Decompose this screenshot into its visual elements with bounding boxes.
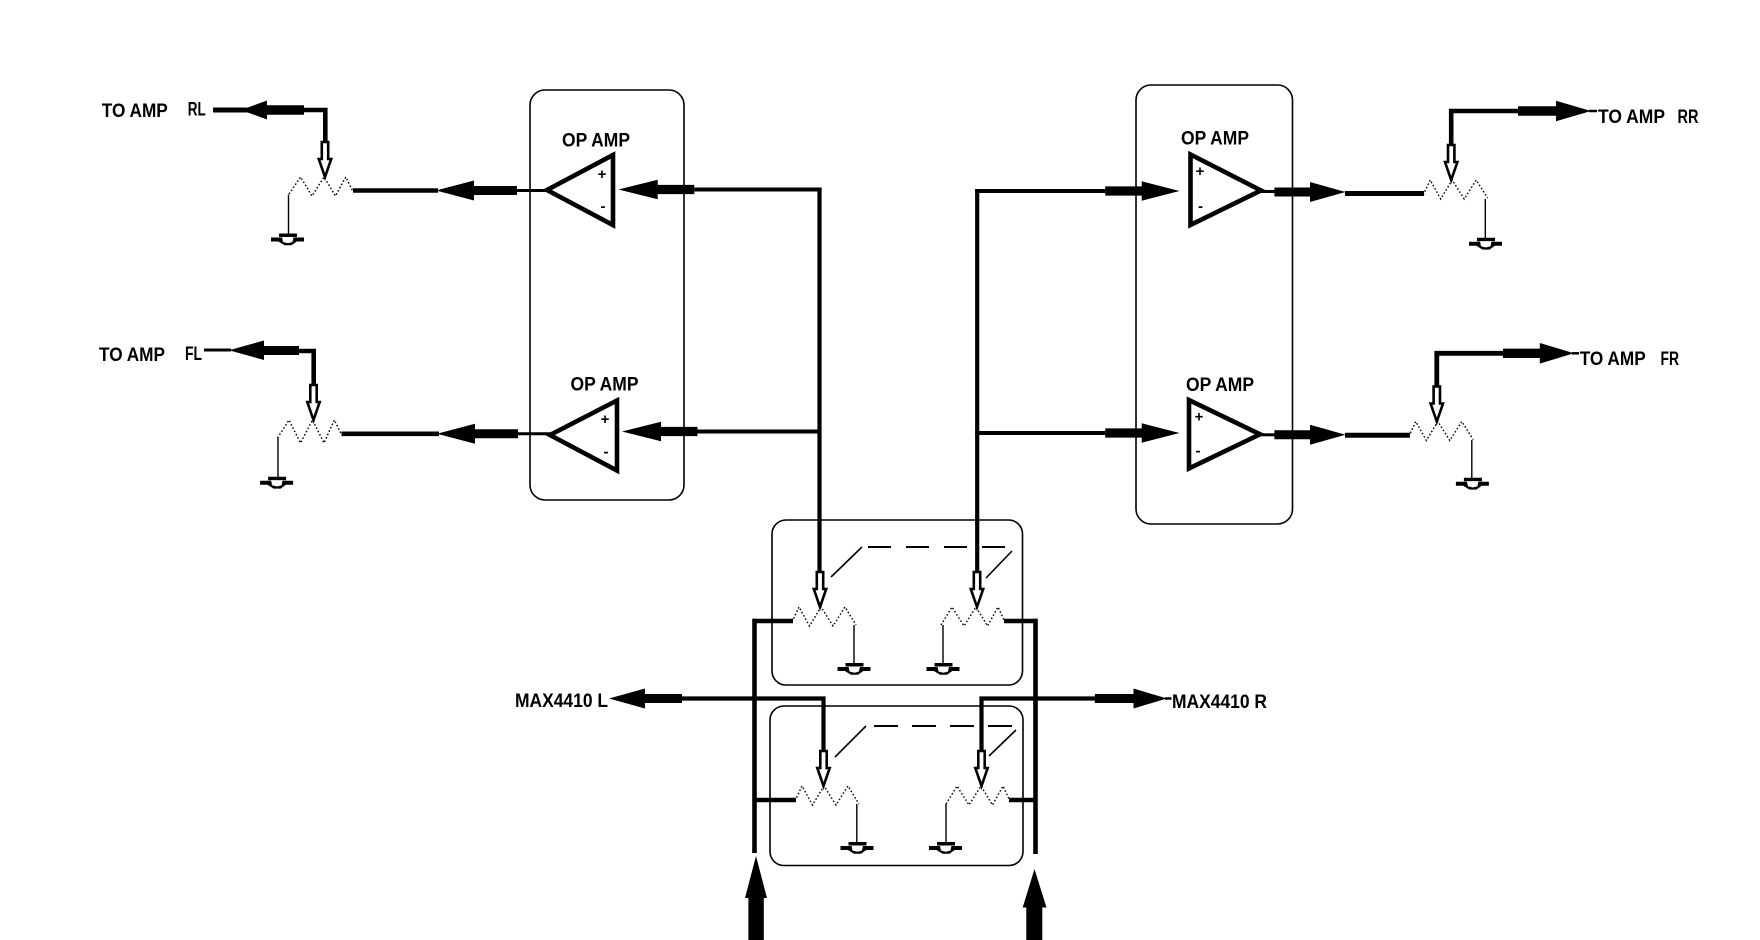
gang diagonal upper right xyxy=(986,551,1012,578)
wire op-amp U2B output to R4 xyxy=(1345,433,1410,438)
wire FR pot wiper corner xyxy=(1437,353,1503,386)
wire R7 left terminal xyxy=(753,798,797,803)
gang coupling dashed line upper xyxy=(868,546,1012,548)
label TO AMP RR xyxy=(1598,107,1699,128)
svg-text:MAX4410 R: MAX4410 R xyxy=(1172,692,1267,713)
gang diagonal upper left xyxy=(831,547,862,577)
wire node R to U2B input xyxy=(975,431,1105,435)
ground under R8 xyxy=(929,842,962,854)
arrow on U1A output wire xyxy=(436,181,517,201)
arrow into U2B + input xyxy=(1105,423,1179,442)
arrow on U2A output wire xyxy=(1274,182,1345,202)
wire U2A output to arrow xyxy=(1260,190,1276,193)
wire node L to U1B input xyxy=(698,430,822,434)
wiper arrow R2 xyxy=(307,385,319,420)
ground under R6 xyxy=(927,663,960,675)
arrow to TO AMP RL xyxy=(241,101,304,120)
wiper arrow R4 xyxy=(1431,387,1443,422)
wire U2B output to arrow xyxy=(1260,433,1276,436)
volume pot box lower xyxy=(770,706,1023,866)
arrow into U1A + input xyxy=(619,180,695,199)
input arrow L xyxy=(745,856,767,940)
arrow into U1B + input xyxy=(622,422,698,441)
wire leader to TO AMP RR xyxy=(1589,110,1597,113)
wire leader to TO AMP RL xyxy=(213,108,247,113)
ground under R3 xyxy=(1469,238,1502,250)
svg-text:+: + xyxy=(598,166,607,183)
wire arrow to U1B output xyxy=(518,432,551,435)
label TO AMP RL xyxy=(102,100,206,123)
gang coupling dashed line lower xyxy=(874,725,1015,727)
wire node R vertical xyxy=(975,189,979,572)
wire leader to TO AMP FR xyxy=(1572,352,1579,355)
svg-text:FR: FR xyxy=(1661,349,1680,370)
op-amp U1A xyxy=(547,155,613,225)
wire R6 to ground xyxy=(942,625,944,664)
arrow to TO AMP FR xyxy=(1503,343,1574,364)
potentiometer R2 xyxy=(278,420,342,443)
wiper arrow R8 xyxy=(975,751,987,786)
svg-text:+: + xyxy=(1196,163,1205,180)
wire node R to U2A input xyxy=(975,189,1105,193)
wire R4 to ground xyxy=(1471,440,1473,478)
potentiometer R3 xyxy=(1423,180,1487,199)
svg-text:MAX4410 L: MAX4410 L xyxy=(515,691,608,712)
svg-text:OP AMP: OP AMP xyxy=(562,131,630,152)
wire input column left xyxy=(752,619,757,853)
wire R1 to ground xyxy=(288,195,290,235)
op-amp box left xyxy=(530,90,684,500)
label TO AMP FL xyxy=(99,344,202,366)
svg-text:TO AMP: TO AMP xyxy=(1580,349,1646,370)
ground under R1 xyxy=(271,234,304,246)
wire R5 to ground xyxy=(853,625,855,664)
wire R8 right terminal xyxy=(1009,798,1038,803)
svg-text:+: + xyxy=(601,411,610,428)
arrow to TO AMP FL xyxy=(229,341,299,361)
wire RL pot wiper to arrow xyxy=(304,110,325,142)
potentiometer R1 xyxy=(289,177,353,196)
svg-text:-: - xyxy=(604,444,609,461)
wiper arrow R3 xyxy=(1445,145,1457,180)
potentiometer R7 xyxy=(795,786,859,805)
svg-text:FL: FL xyxy=(185,344,202,365)
input arrow R xyxy=(1023,869,1047,940)
wire R3 to ground xyxy=(1484,199,1486,238)
ground under R2 xyxy=(260,477,293,489)
potentiometer R5 xyxy=(792,607,856,626)
arrow to MAX4410 L xyxy=(609,689,682,709)
wire R7 to ground xyxy=(856,804,858,843)
wire R8 to ground xyxy=(945,804,947,843)
gang diagonal lower right xyxy=(989,730,1016,756)
svg-text:OP AMP: OP AMP xyxy=(1186,375,1254,396)
svg-text:OP AMP: OP AMP xyxy=(1181,129,1249,150)
ground under R5 xyxy=(838,663,871,675)
svg-text:RR: RR xyxy=(1678,107,1699,128)
label TO AMP FR xyxy=(1580,349,1680,370)
wire R2 to op-amp U1B output xyxy=(342,431,440,436)
wire leader to MAX4410 R xyxy=(1165,697,1172,700)
volume pot box upper xyxy=(772,520,1023,685)
ground under R7 xyxy=(841,842,874,854)
wire leader to TO AMP FL xyxy=(204,349,231,352)
arrow to TO AMP RR xyxy=(1518,101,1591,122)
svg-text:OP AMP: OP AMP xyxy=(571,375,639,396)
svg-text:RL: RL xyxy=(188,100,206,121)
wire node L to U1A input xyxy=(694,188,821,192)
wire R1 to op-amp U1A output xyxy=(353,188,438,193)
potentiometer R8 xyxy=(946,786,1010,805)
wiper arrow R5 xyxy=(814,572,826,607)
svg-text:-: - xyxy=(601,198,606,215)
wire MAX4410 R xyxy=(979,697,1096,751)
wire FL pot wiper to arrow xyxy=(299,351,314,384)
wire node L vertical xyxy=(817,188,821,573)
svg-text:TO AMP: TO AMP xyxy=(102,101,168,122)
wire RR pot wiper corner xyxy=(1451,111,1518,144)
svg-text:TO AMP: TO AMP xyxy=(1598,107,1665,128)
gang diagonal lower left xyxy=(835,726,866,757)
svg-text:-: - xyxy=(1196,443,1201,460)
svg-text:+: + xyxy=(1195,409,1204,426)
wire op-amp U2A output to R3 xyxy=(1345,191,1424,196)
wiper arrow R1 xyxy=(319,142,331,177)
op-amp U2A xyxy=(1191,155,1262,226)
wire R5 left terminal xyxy=(753,619,794,624)
arrow to MAX4410 R xyxy=(1095,689,1167,709)
arrow into U2A + input xyxy=(1105,181,1179,200)
wire arrow to U1A output xyxy=(517,189,549,192)
op-amp U2B xyxy=(1189,400,1260,469)
op-amp box right xyxy=(1136,85,1293,524)
svg-text:TO AMP: TO AMP xyxy=(99,345,165,366)
ground under R4 xyxy=(1456,478,1489,490)
op-amp U1B xyxy=(550,401,617,471)
svg-text:-: - xyxy=(1198,198,1203,215)
wire input column right xyxy=(1033,619,1038,854)
wiper arrow R7 xyxy=(817,751,829,786)
arrow on U2B output wire xyxy=(1274,425,1345,445)
arrow on U1B output wire xyxy=(437,424,518,444)
wiper arrow R6 xyxy=(971,572,983,607)
potentiometer R6 xyxy=(941,607,1005,626)
wire R2 to ground xyxy=(277,438,279,477)
potentiometer R4 xyxy=(1409,422,1473,441)
wire R6 right terminal xyxy=(1004,619,1038,624)
wire MAX4410 L xyxy=(680,697,826,751)
